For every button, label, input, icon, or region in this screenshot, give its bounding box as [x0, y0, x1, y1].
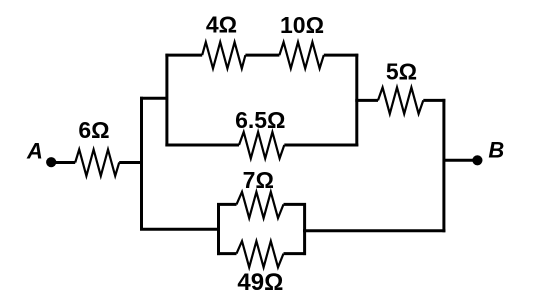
- resistor R1 6Ω (zigzag): [75, 150, 119, 176]
- wire: lower parallel group left edge: [217, 203, 220, 255]
- svg-text:B: B: [488, 138, 504, 163]
- wire: right node vertical bus: [442, 99, 445, 232]
- wire: right node to terminal B: [444, 159, 477, 162]
- resistor R7 49Ω (zigzag): [237, 241, 284, 267]
- wire: left node to upper parallel group: [140, 97, 168, 100]
- wire: bottom branch right segment: [303, 229, 445, 232]
- svg-text:6Ω: 6Ω: [78, 117, 109, 143]
- svg-text:10Ω: 10Ω: [280, 12, 324, 38]
- resistor R2 4Ω (zigzag): [202, 42, 245, 68]
- node B terminal dot: [472, 155, 482, 165]
- svg-text:49Ω: 49Ω: [237, 269, 283, 292]
- wire: top branch right segment: [324, 54, 359, 57]
- wire: upper group to R5: [355, 99, 378, 102]
- node A terminal dot: [46, 157, 56, 167]
- svg-text:7Ω: 7Ω: [243, 167, 274, 193]
- wire: lower group bottom branch right stub: [284, 252, 307, 255]
- svg-text:4Ω: 4Ω: [206, 12, 237, 38]
- resistor R6 7Ω (zigzag): [237, 192, 284, 218]
- resistor R3 10Ω (zigzag): [279, 42, 323, 68]
- wire: lower group top branch left stub: [217, 203, 237, 206]
- wire: bottom branch left segment: [140, 228, 220, 231]
- svg-text:A: A: [26, 139, 43, 164]
- resistor R5 5Ω (zigzag): [378, 87, 423, 113]
- resistor R4 6.5Ω (zigzag): [239, 132, 284, 158]
- svg-text:5Ω: 5Ω: [386, 58, 417, 84]
- wire: top branch left segment: [165, 54, 202, 57]
- wire: lower group bottom branch left stub: [217, 252, 237, 255]
- wire: middle branch left segment: [165, 144, 239, 147]
- wire: terminal A lead: [49, 161, 75, 164]
- wire: lower parallel group right edge: [303, 203, 306, 255]
- wire: middle branch right segment: [284, 144, 358, 147]
- wire: R5 to right node: [423, 99, 445, 102]
- wire: R1 to left node: [119, 161, 143, 164]
- wire: left node vertical bus: [140, 97, 143, 231]
- svg-text:6.5Ω: 6.5Ω: [235, 107, 285, 133]
- wire: top branch middle segment: [245, 54, 279, 57]
- wire: lower group top branch right stub: [284, 203, 307, 206]
- wire: upper group left edge: [165, 54, 168, 147]
- wire: upper group right edge: [355, 54, 358, 147]
